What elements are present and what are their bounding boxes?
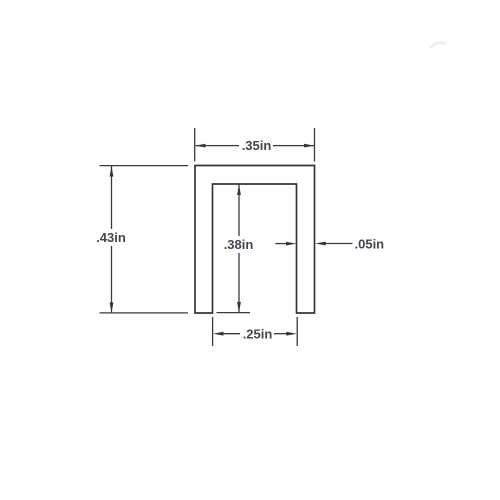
svg-text:.43in: .43in — [96, 230, 126, 245]
dimension .43in up arrowhead — [110, 166, 114, 177]
svg-text:.25in: .25in — [243, 326, 273, 341]
dimension .25in right arrowhead — [286, 332, 297, 336]
dimension .25in line left segment — [222, 333, 240, 335]
dimension .43in line lower segment — [111, 246, 113, 312]
dimension .35in right extension line — [314, 128, 316, 162]
dimension .25in left arrowhead — [213, 332, 224, 336]
dimension .43in top extension line — [100, 165, 189, 167]
faint watermark mark top right — [430, 43, 446, 48]
dimension .38in up arrowhead — [237, 185, 241, 196]
dimension .35in right arrowhead — [304, 144, 315, 148]
svg-text:.35in: .35in — [242, 138, 272, 153]
dimension .35in line left segment — [196, 145, 240, 147]
dimension .35in left extension line — [194, 128, 196, 162]
dimension .43in line upper segment — [111, 166, 113, 229]
dimension .38in bottom datum line — [217, 312, 251, 314]
dimension .25in line right segment — [274, 333, 288, 335]
dimension .05in left arrow tail — [275, 243, 287, 245]
dimension .43in down arrowhead — [110, 302, 114, 313]
dimension .38in line lower segment — [238, 253, 240, 312]
dimension .05in left arrowhead pointing right — [286, 242, 297, 246]
svg-text:.38in: .38in — [224, 237, 254, 252]
dimension .25in right extension line — [296, 317, 298, 346]
dimension .35in line right segment — [273, 145, 314, 147]
U-channel profile outline — [195, 166, 315, 314]
dimension .05in leader line — [325, 243, 353, 245]
dimension .38in line upper segment — [238, 185, 240, 237]
dimension .25in left extension line — [212, 317, 214, 346]
svg-text:.05in: .05in — [355, 237, 385, 252]
dimension .43in bottom extension line — [100, 312, 189, 314]
dimension .35in left arrowhead — [195, 144, 206, 148]
dimension .05in right arrowhead pointing left — [315, 242, 326, 246]
dimension .38in down arrowhead — [237, 302, 241, 313]
